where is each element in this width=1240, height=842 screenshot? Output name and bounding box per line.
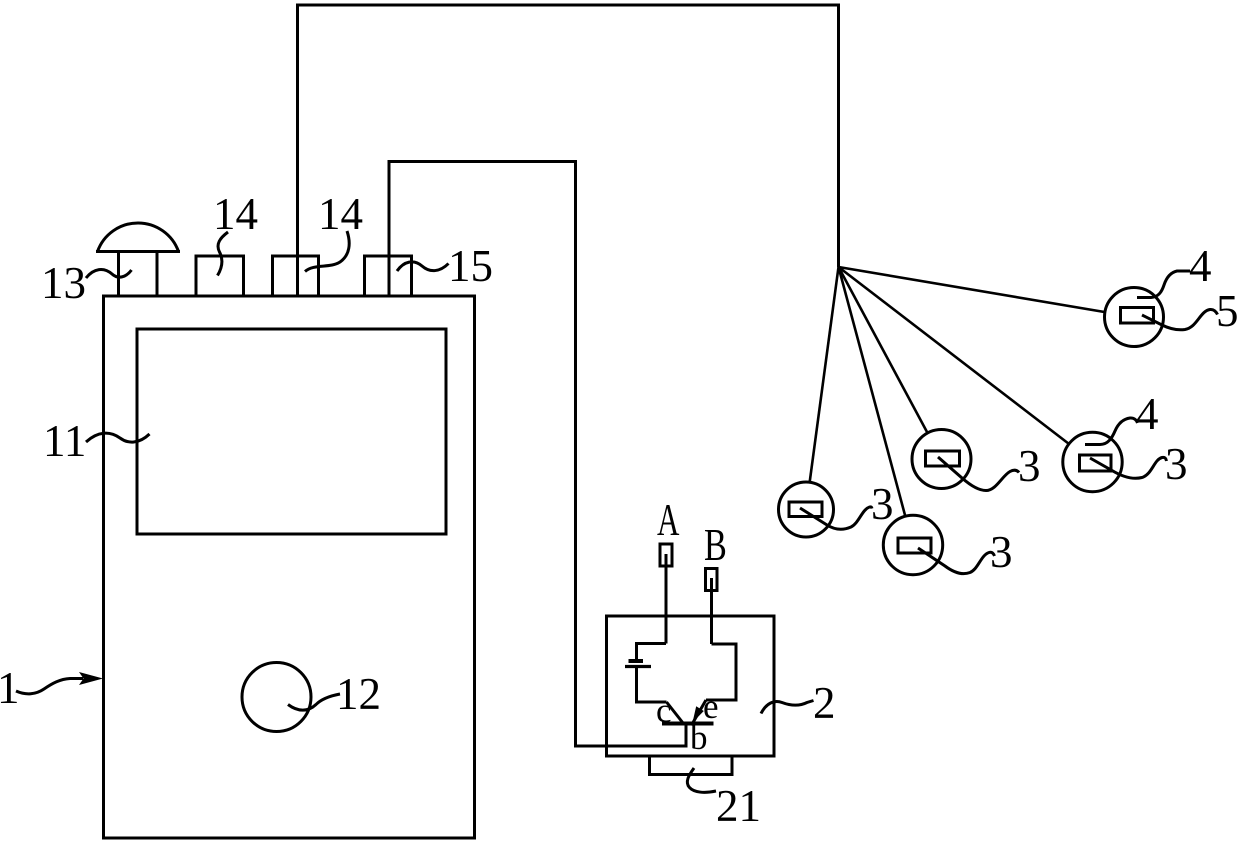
svg-text:5: 5 [1216, 286, 1239, 336]
svg-text:14: 14 [318, 189, 363, 239]
svg-text:4: 4 [1189, 241, 1212, 291]
svg-text:11: 11 [43, 416, 86, 466]
svg-text:B: B [704, 519, 727, 570]
svg-text:3: 3 [1165, 439, 1188, 489]
svg-text:3: 3 [990, 527, 1013, 577]
svg-text:c: c [656, 691, 672, 730]
svg-text:3: 3 [1018, 441, 1041, 491]
svg-text:4: 4 [1136, 389, 1159, 439]
svg-text:12: 12 [336, 669, 381, 719]
svg-text:15: 15 [448, 241, 493, 291]
svg-text:14: 14 [213, 189, 258, 239]
svg-text:13: 13 [41, 258, 86, 308]
svg-text:2: 2 [813, 678, 836, 728]
svg-text:21: 21 [716, 781, 761, 831]
svg-text:1: 1 [0, 663, 20, 713]
svg-text:b: b [690, 718, 708, 757]
svg-text:A: A [657, 497, 679, 546]
svg-text:3: 3 [871, 479, 894, 529]
